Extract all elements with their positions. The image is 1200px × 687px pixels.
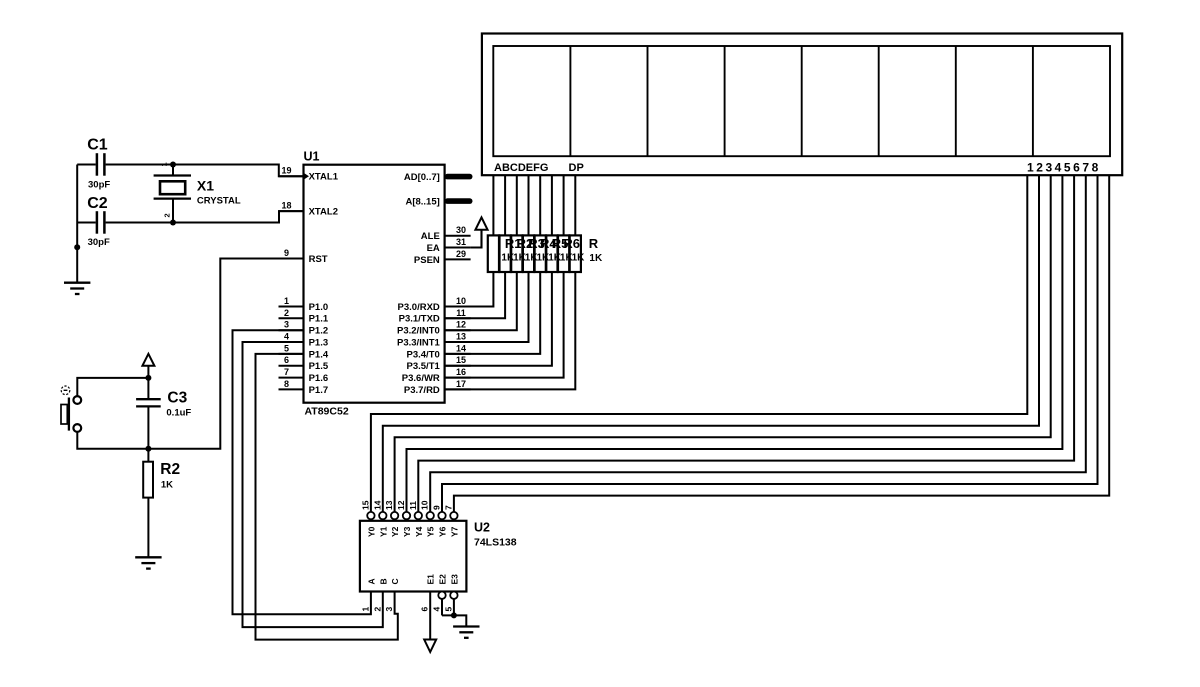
U1 pin 4 P1.3 bbox=[279, 332, 329, 349]
svg-text:P1.4: P1.4 bbox=[309, 349, 329, 360]
svg-text:P3.7/RD: P3.7/RD bbox=[404, 385, 440, 396]
svg-text:9: 9 bbox=[432, 505, 442, 510]
U1 pin 30 ALE bbox=[421, 225, 471, 242]
U2 pin 3 input C bbox=[384, 578, 400, 611]
svg-text:19: 19 bbox=[281, 166, 291, 176]
U1 bus pin AD[0..7] bbox=[404, 172, 473, 183]
wire display segment G to P3.6 bbox=[445, 175, 564, 377]
svg-text:12: 12 bbox=[456, 320, 466, 330]
svg-text:U2: U2 bbox=[474, 521, 490, 535]
svg-text:R: R bbox=[589, 236, 599, 251]
svg-text:DP: DP bbox=[569, 162, 584, 174]
svg-text:1K: 1K bbox=[161, 480, 173, 491]
U1 pin 13 P3.3/INT1 bbox=[397, 332, 471, 349]
junction node reset top bbox=[145, 375, 151, 381]
svg-text:AD[0..7]: AD[0..7] bbox=[404, 172, 440, 183]
svg-text:11: 11 bbox=[408, 501, 418, 510]
svg-text:C: C bbox=[390, 578, 400, 584]
U1 pin 5 P1.4 bbox=[279, 343, 329, 360]
resistor R3 bbox=[511, 235, 522, 272]
ground symbol U2 bbox=[453, 625, 479, 627]
svg-text:A: A bbox=[366, 578, 376, 584]
wire display segment A to P3.0 bbox=[445, 175, 494, 306]
U1 pin 8 P1.7 bbox=[279, 379, 329, 396]
svg-text:A[8..15]: A[8..15] bbox=[405, 197, 439, 208]
svg-text:17: 17 bbox=[456, 379, 466, 389]
U2 pin 14 Y1 output with bubble bbox=[372, 500, 388, 537]
junction node E3 bbox=[451, 612, 457, 618]
svg-text:3: 3 bbox=[284, 320, 289, 330]
resistor R6 bbox=[546, 235, 557, 272]
svg-text:31: 31 bbox=[456, 237, 466, 247]
resistor R2 bbox=[500, 235, 511, 272]
svg-text:Y3: Y3 bbox=[402, 526, 412, 537]
svg-text:R6: R6 bbox=[563, 236, 580, 251]
U1 pin 14 P3.4/T0 bbox=[407, 343, 471, 360]
svg-text:10: 10 bbox=[456, 296, 466, 306]
U1 pin 19 XTAL1 bbox=[279, 166, 339, 183]
wire E1 to power terminal bbox=[429, 592, 431, 640]
wire C2 right to XTAL2 bbox=[106, 211, 304, 222]
U1 pin 6 P1.5 bbox=[279, 355, 329, 372]
wire display segment C to P3.2 bbox=[445, 175, 517, 330]
svg-text:ALE: ALE bbox=[421, 231, 440, 242]
svg-text:1: 1 bbox=[160, 162, 169, 166]
svg-text:Y2: Y2 bbox=[390, 526, 400, 537]
U1 pin 7 P1.6 bbox=[279, 367, 329, 384]
svg-text:C2: C2 bbox=[87, 195, 108, 212]
U2 pin 7 Y7 output with bubble bbox=[443, 505, 459, 537]
resistor R8 bbox=[570, 235, 581, 272]
push button bbox=[61, 386, 81, 432]
svg-text:P3.2/INT0: P3.2/INT0 bbox=[397, 326, 440, 337]
U1 pin 11 P3.1/TXD bbox=[399, 308, 471, 325]
svg-text:15: 15 bbox=[456, 355, 466, 365]
U2 pin 15 Y0 output with bubble bbox=[360, 500, 376, 537]
wire U2 B to P1.3 bbox=[243, 342, 383, 627]
svg-text:1: 1 bbox=[360, 607, 370, 612]
svg-text:30pF: 30pF bbox=[88, 237, 110, 248]
wire Y0 to display digit 1 bbox=[371, 175, 1027, 512]
wire C2 left bbox=[77, 222, 96, 224]
svg-text:P3.6/WR: P3.6/WR bbox=[402, 373, 440, 384]
svg-text:P3.1/TXD: P3.1/TXD bbox=[399, 314, 440, 325]
junction node below C2 bbox=[74, 244, 80, 250]
svg-text:14: 14 bbox=[456, 343, 466, 353]
svg-text:6: 6 bbox=[420, 607, 430, 612]
power terminal arrow at reset bbox=[142, 354, 154, 378]
svg-text:12: 12 bbox=[396, 500, 406, 510]
wire Y5 to display digit 6 bbox=[430, 175, 1086, 512]
svg-text:EA: EA bbox=[427, 243, 440, 254]
svg-text:P3.3/INT1: P3.3/INT1 bbox=[397, 337, 440, 348]
U1 pin 15 P3.5/T1 bbox=[407, 355, 471, 372]
svg-text:4: 4 bbox=[284, 332, 289, 342]
svg-text:3: 3 bbox=[384, 607, 394, 612]
svg-text:29: 29 bbox=[456, 249, 466, 259]
resistor R1 bbox=[488, 235, 499, 272]
svg-text:10: 10 bbox=[420, 500, 430, 510]
decoder U2 body bbox=[360, 521, 467, 592]
ground symbol reset bbox=[135, 556, 161, 558]
svg-text:30pF: 30pF bbox=[88, 179, 110, 190]
U1 pin 31 EA bbox=[427, 237, 471, 254]
svg-text:Y1: Y1 bbox=[378, 526, 388, 537]
wire Y3 to display digit 4 bbox=[407, 175, 1063, 512]
svg-text:C3: C3 bbox=[167, 389, 187, 406]
wire U2 C to P1.4 bbox=[256, 354, 398, 640]
svg-text:Y5: Y5 bbox=[426, 526, 436, 537]
U2 pin 1 input A bbox=[360, 578, 376, 611]
wire display segment F to P3.5 bbox=[445, 175, 552, 366]
svg-text:CRYSTAL: CRYSTAL bbox=[197, 195, 241, 206]
svg-text:74LS138: 74LS138 bbox=[474, 537, 517, 549]
svg-text:P1.2: P1.2 bbox=[309, 326, 329, 337]
svg-text:2: 2 bbox=[163, 213, 172, 217]
wire button top bbox=[77, 378, 148, 396]
crystal X1 bbox=[154, 162, 241, 226]
wire E2 stub bbox=[441, 599, 443, 616]
U2 pin 5 enable E3 with bubble bbox=[443, 574, 459, 612]
svg-text:13: 13 bbox=[384, 500, 394, 510]
svg-text:X1: X1 bbox=[197, 177, 214, 193]
wire R2 to ground bbox=[147, 498, 149, 558]
ground rail wire left bbox=[76, 165, 78, 283]
display inner window with 8 digit cells bbox=[493, 46, 1110, 156]
wire display segment E to P3.4 bbox=[445, 175, 541, 354]
svg-text:Y0: Y0 bbox=[366, 526, 376, 537]
svg-text:12345678: 12345678 bbox=[1027, 161, 1101, 175]
svg-text:16: 16 bbox=[456, 367, 466, 377]
svg-text:18: 18 bbox=[281, 201, 291, 211]
svg-text:AT89C52: AT89C52 bbox=[305, 406, 349, 418]
capacitor C1 bbox=[87, 137, 110, 191]
wire C3 to reset node bbox=[147, 406, 149, 448]
svg-text:1K: 1K bbox=[589, 253, 603, 264]
U1 pin 17 P3.7/RD bbox=[404, 379, 471, 396]
U1 bus pin A[8..15] bbox=[405, 197, 472, 208]
wire EA to power bbox=[471, 230, 482, 248]
power terminal arrow down at E1 bbox=[424, 640, 436, 653]
svg-text:1K: 1K bbox=[572, 252, 586, 263]
resistor R7 bbox=[558, 235, 569, 272]
svg-text:P3.5/T1: P3.5/T1 bbox=[407, 361, 441, 372]
svg-text:P1.7: P1.7 bbox=[309, 385, 329, 396]
U2 pin 11 Y4 output with bubble bbox=[408, 501, 424, 537]
svg-text:P1.0: P1.0 bbox=[309, 302, 329, 313]
svg-text:2: 2 bbox=[372, 607, 382, 612]
svg-text:Y7: Y7 bbox=[449, 526, 459, 537]
svg-text:2: 2 bbox=[284, 308, 289, 318]
resistor R5 bbox=[535, 235, 546, 272]
U1 pin 2 P1.1 bbox=[279, 308, 329, 325]
wire Y6 to display digit 7 bbox=[442, 175, 1098, 512]
wire Y2 to display digit 3 bbox=[395, 175, 1051, 512]
capacitor C2 bbox=[87, 195, 110, 248]
svg-text:P1.6: P1.6 bbox=[309, 373, 329, 384]
wire E2 to ground bbox=[442, 615, 466, 626]
svg-text:8: 8 bbox=[284, 379, 289, 389]
wire Y1 to display digit 2 bbox=[383, 175, 1039, 512]
svg-text:4: 4 bbox=[432, 607, 442, 612]
display segment pin labels ABCDEFG DP bbox=[494, 162, 584, 174]
svg-text:7: 7 bbox=[443, 505, 453, 510]
svg-text:9: 9 bbox=[284, 248, 289, 258]
wire Y4 to display digit 5 bbox=[418, 175, 1074, 512]
svg-text:Y6: Y6 bbox=[438, 526, 448, 537]
svg-text:U1: U1 bbox=[304, 150, 320, 164]
svg-text:13: 13 bbox=[456, 332, 466, 342]
wire display segment DP to P3.7 bbox=[445, 175, 576, 389]
wire C1 left to ground rail bbox=[77, 164, 96, 166]
svg-text:E3: E3 bbox=[449, 574, 459, 585]
ground symbol left bbox=[64, 282, 90, 284]
U2 pin 9 Y6 output with bubble bbox=[432, 505, 448, 537]
U2 pin 10 Y5 output with bubble bbox=[420, 500, 436, 537]
svg-text:Y4: Y4 bbox=[414, 526, 424, 537]
U2 pin 13 Y2 output with bubble bbox=[384, 500, 400, 537]
U1 pin 10 P3.0/RXD bbox=[398, 296, 471, 313]
svg-text:0.1uF: 0.1uF bbox=[166, 408, 191, 419]
svg-text:E2: E2 bbox=[438, 574, 448, 585]
svg-text:E1: E1 bbox=[426, 574, 436, 585]
svg-text:6: 6 bbox=[284, 355, 289, 365]
U1 pin 9 RST bbox=[279, 248, 328, 265]
U2 pin 6 enable E1 bbox=[420, 574, 436, 612]
svg-text:P3.4/T0: P3.4/T0 bbox=[407, 349, 440, 360]
svg-text:5: 5 bbox=[443, 607, 453, 612]
svg-text:R2: R2 bbox=[160, 461, 180, 478]
U1 pin 18 XTAL2 bbox=[279, 201, 338, 218]
svg-text:14: 14 bbox=[372, 500, 382, 510]
wire Y7 to display digit 8 bbox=[454, 175, 1109, 512]
svg-text:11: 11 bbox=[456, 308, 466, 318]
resistor R2 bbox=[143, 449, 180, 498]
svg-text:RST: RST bbox=[309, 254, 328, 265]
power terminal arrow at EA bbox=[475, 217, 487, 229]
wire reset node to RST pin bbox=[148, 259, 278, 449]
wire power to C3 bbox=[147, 378, 149, 399]
junction node reset bottom bbox=[145, 446, 151, 452]
U2 pin 12 Y3 output with bubble bbox=[396, 500, 412, 537]
wire button bottom to reset node bbox=[77, 432, 148, 449]
U2 pin 4 enable E2 with bubble bbox=[432, 574, 448, 612]
svg-text:PSEN: PSEN bbox=[414, 255, 440, 266]
svg-text:5: 5 bbox=[284, 343, 289, 353]
capacitor C3 bbox=[136, 389, 191, 418]
svg-text:P1.5: P1.5 bbox=[309, 361, 329, 372]
svg-text:B: B bbox=[378, 578, 388, 584]
svg-text:XTAL1: XTAL1 bbox=[309, 172, 339, 183]
U1 pin 3 P1.2 bbox=[279, 320, 329, 337]
svg-text:30: 30 bbox=[456, 225, 466, 235]
svg-text:15: 15 bbox=[360, 500, 370, 510]
U1 pin 16 P3.6/WR bbox=[402, 367, 471, 384]
svg-text:ABCDEFG: ABCDEFG bbox=[494, 162, 548, 174]
resistor R4 bbox=[523, 235, 534, 272]
svg-text:1: 1 bbox=[284, 296, 289, 306]
U1 pin 12 P3.2/INT0 bbox=[397, 320, 471, 337]
U1 pin 1 P1.0 bbox=[279, 296, 329, 313]
svg-text:P1.3: P1.3 bbox=[309, 337, 329, 348]
svg-text:C1: C1 bbox=[87, 137, 108, 154]
wire U2 A to P1.2 bbox=[233, 330, 371, 614]
U1 pin 29 PSEN bbox=[414, 249, 471, 266]
wire display segment D to P3.3 bbox=[445, 175, 529, 342]
microcontroller U1 body bbox=[304, 165, 445, 403]
wire E3 stub bbox=[453, 599, 455, 616]
svg-text:P3.0/RXD: P3.0/RXD bbox=[398, 302, 440, 313]
7-segment display module outer frame bbox=[482, 34, 1122, 176]
wire display segment B to P3.1 bbox=[445, 175, 506, 318]
wire C1 right to XTAL1 bbox=[106, 165, 304, 177]
svg-text:XTAL2: XTAL2 bbox=[309, 207, 338, 218]
svg-text:7: 7 bbox=[284, 367, 289, 377]
svg-text:P1.1: P1.1 bbox=[309, 314, 329, 325]
U2 pin 2 input B bbox=[372, 578, 388, 611]
